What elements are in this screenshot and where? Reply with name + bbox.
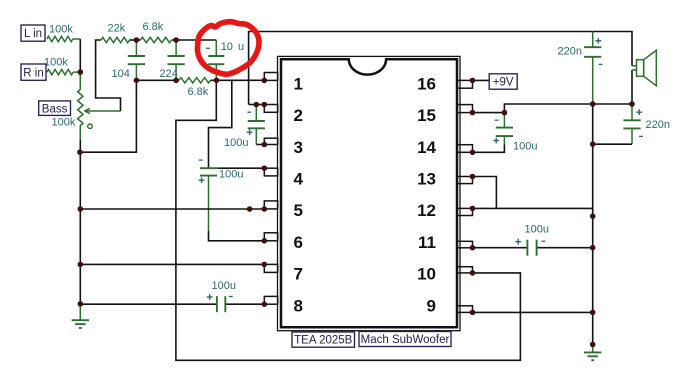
- svg-text:Mach SubWoofer: Mach SubWoofer: [361, 334, 450, 346]
- svg-text:15: 15: [417, 106, 436, 125]
- svg-text:13: 13: [417, 170, 436, 189]
- svg-text:6: 6: [294, 233, 303, 252]
- svg-text:12: 12: [417, 201, 436, 220]
- svg-text:5: 5: [294, 201, 303, 220]
- svg-text:TEA 2025B: TEA 2025B: [294, 335, 353, 347]
- svg-text:100u: 100u: [224, 137, 248, 149]
- svg-text:220n: 220n: [646, 119, 670, 131]
- svg-text:u: u: [238, 41, 244, 53]
- svg-text:100k: 100k: [44, 57, 68, 69]
- svg-text:8: 8: [294, 296, 303, 315]
- svg-text:1: 1: [294, 74, 303, 93]
- svg-text:100k: 100k: [49, 24, 73, 36]
- svg-text:100k: 100k: [52, 116, 76, 128]
- svg-text:9: 9: [427, 296, 436, 315]
- svg-text:224: 224: [160, 68, 178, 80]
- svg-text:L in: L in: [24, 28, 42, 40]
- svg-text:100u: 100u: [219, 169, 243, 181]
- svg-text:100u: 100u: [513, 140, 537, 152]
- svg-text:6.8k: 6.8k: [143, 21, 164, 33]
- svg-text:2: 2: [294, 106, 303, 125]
- svg-text:16: 16: [417, 74, 436, 93]
- svg-text:22k: 22k: [108, 23, 126, 35]
- svg-text:6.8k: 6.8k: [188, 86, 209, 98]
- svg-text:100u: 100u: [525, 223, 549, 235]
- svg-text:104: 104: [112, 68, 130, 80]
- svg-text:10: 10: [417, 265, 436, 284]
- svg-text:220n: 220n: [558, 45, 582, 57]
- svg-text:11: 11: [418, 233, 436, 252]
- svg-text:4: 4: [294, 170, 304, 189]
- svg-text:7: 7: [294, 265, 303, 284]
- svg-text:3: 3: [294, 138, 303, 157]
- svg-text:10: 10: [221, 41, 233, 53]
- svg-text:14: 14: [417, 138, 436, 157]
- svg-text:100u: 100u: [212, 280, 236, 292]
- svg-text:R in: R in: [23, 67, 43, 79]
- svg-text:Bass: Bass: [42, 103, 68, 115]
- svg-text:+9V: +9V: [493, 77, 514, 89]
